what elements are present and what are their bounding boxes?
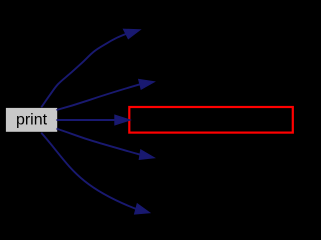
arrowhead 2: [139, 79, 155, 89]
edge print to node1: [41, 34, 126, 107]
svg-text:print: print: [16, 112, 48, 129]
arrowhead 4: [139, 150, 154, 160]
edge print to node4: [57, 129, 140, 155]
node print: [6, 108, 57, 132]
arrowhead 3: [115, 115, 131, 125]
arrowhead 1: [123, 29, 140, 39]
edge print to node2: [57, 84, 140, 110]
edge print to node5: [41, 133, 136, 209]
arrowhead 5: [135, 204, 150, 214]
edge print to node3: [57, 119, 115, 121]
node highlighted (red border): [129, 107, 292, 133]
